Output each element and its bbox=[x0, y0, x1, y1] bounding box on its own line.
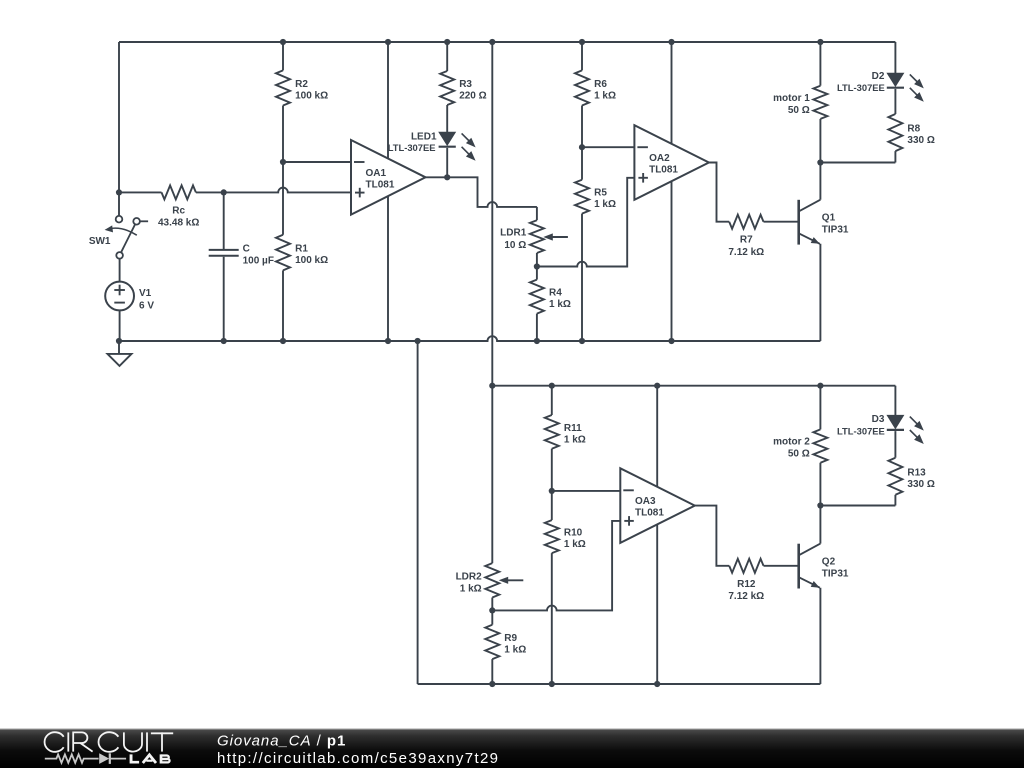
svg-text:7.12 kΩ: 7.12 kΩ bbox=[728, 247, 764, 258]
svg-text:D3: D3 bbox=[872, 414, 885, 425]
svg-text:motor 2: motor 2 bbox=[773, 437, 810, 448]
junction top rail/R2 bbox=[280, 39, 286, 45]
voltage source V1 bbox=[105, 282, 154, 312]
svg-text:OA2: OA2 bbox=[649, 153, 670, 164]
junction motor1/Q1 collector bbox=[817, 159, 823, 165]
switch SW1 bbox=[89, 216, 148, 259]
resistor R9 bbox=[485, 610, 526, 684]
svg-text:100 kΩ: 100 kΩ bbox=[295, 91, 328, 102]
junction Rc row/C bbox=[221, 189, 227, 195]
wire R7 to Q1 base bbox=[764, 221, 799, 223]
motor 2 (resistor symbol) bbox=[773, 386, 827, 506]
svg-text:http://circuitlab.com/c5e39axn: http://circuitlab.com/c5e39axny7t29 bbox=[217, 750, 499, 767]
svg-text:OA3: OA3 bbox=[635, 496, 656, 507]
wire LDR1 junction to OA2 + input bbox=[537, 178, 635, 267]
resistor Rc bbox=[158, 185, 199, 228]
junction R2/R1/OA1 - bbox=[280, 159, 286, 165]
wire LDR2 junction to OA3 + input bbox=[492, 521, 620, 611]
svg-text:motor 1: motor 1 bbox=[773, 93, 810, 104]
CircuitLab logo bbox=[45, 732, 174, 764]
svg-text:R6: R6 bbox=[594, 79, 607, 90]
junction lower rail/R11 bbox=[549, 383, 555, 389]
junction bottom rail/col417 bbox=[415, 338, 421, 344]
resistor R8 bbox=[888, 114, 934, 163]
junction lower bottom rail/R10 bbox=[549, 681, 555, 687]
svg-text:1 kΩ: 1 kΩ bbox=[564, 539, 586, 550]
junction top rail/col671 bbox=[668, 39, 674, 45]
photoresistor LDR2 bbox=[456, 386, 524, 611]
wire column behind OA2 bbox=[671, 42, 673, 341]
wire column behind OA1 bbox=[387, 42, 389, 341]
junction OA1 out/LED1 bbox=[444, 174, 450, 180]
junction bottom rail/R4 bbox=[534, 338, 540, 344]
junction bottom rail/R1 bbox=[280, 338, 286, 344]
junction bottom rail/V1 bbox=[116, 338, 122, 344]
junction lower rail/col492 bbox=[489, 383, 495, 389]
svg-text:R2: R2 bbox=[295, 79, 308, 90]
footer URL bbox=[217, 750, 499, 767]
wire motor1/R8 junction row bbox=[820, 162, 895, 164]
wire OA2 inverting input bbox=[582, 146, 634, 148]
svg-text:SW1: SW1 bbox=[89, 236, 111, 247]
svg-text:TL081: TL081 bbox=[649, 165, 678, 176]
junction R11/R10/OA3 - bbox=[549, 488, 555, 494]
footer title Giovana_CA / p1 bbox=[217, 733, 346, 750]
svg-text:10 Ω: 10 Ω bbox=[504, 240, 526, 251]
motor 1 (resistor symbol) bbox=[773, 42, 827, 163]
wire SW1 to V1 bbox=[119, 259, 121, 282]
svg-text:1 kΩ: 1 kΩ bbox=[564, 434, 586, 445]
resistor R11 bbox=[545, 386, 586, 491]
svg-text:43.48 kΩ: 43.48 kΩ bbox=[158, 218, 199, 229]
svg-text:R9: R9 bbox=[504, 633, 517, 644]
svg-text:330 Ω: 330 Ω bbox=[907, 135, 934, 146]
svg-text:OA1: OA1 bbox=[366, 168, 387, 179]
junction lower rail/motor2 bbox=[817, 383, 823, 389]
resistor R10 bbox=[545, 491, 586, 684]
svg-text:LDR1: LDR1 bbox=[500, 228, 527, 239]
svg-text:R8: R8 bbox=[907, 124, 920, 135]
svg-text:220 Ω: 220 Ω bbox=[459, 91, 486, 102]
junction bottom rail/col388 bbox=[385, 338, 391, 344]
wire lower-left column bbox=[417, 341, 419, 684]
transistor Q2 bbox=[799, 506, 849, 685]
svg-text:R1: R1 bbox=[295, 244, 308, 255]
junction lower rail/col657 bbox=[654, 383, 660, 389]
footer bar bbox=[0, 729, 1024, 768]
svg-text:7.12 kΩ: 7.12 kΩ bbox=[728, 591, 764, 602]
transistor Q1 bbox=[799, 163, 849, 342]
wire V1 to ground rail bbox=[119, 310, 121, 341]
op-amp OA2 bbox=[634, 125, 709, 200]
svg-text:1 kΩ: 1 kΩ bbox=[460, 584, 482, 595]
svg-text:R13: R13 bbox=[907, 467, 926, 478]
svg-text:V1: V1 bbox=[139, 288, 152, 299]
svg-text:TL081: TL081 bbox=[366, 179, 395, 190]
svg-text:R12: R12 bbox=[737, 579, 756, 590]
wire OA3 output to R12 bbox=[695, 506, 730, 566]
wire Rc row left bbox=[119, 191, 162, 193]
svg-text:R5: R5 bbox=[594, 188, 607, 199]
resistor R7 bbox=[728, 215, 764, 258]
svg-text:1 kΩ: 1 kΩ bbox=[504, 644, 526, 655]
wire motor2/R13 junction row bbox=[820, 505, 895, 507]
svg-text:R11: R11 bbox=[564, 423, 582, 434]
wire column behind OA3 bbox=[656, 386, 658, 684]
junction lower bottom rail/R9 bbox=[489, 681, 495, 687]
wire OA3 inverting input bbox=[552, 490, 621, 492]
junction bottom rail/R5 bbox=[579, 338, 585, 344]
svg-text:LTL-307EE: LTL-307EE bbox=[388, 142, 436, 153]
svg-text:Q1: Q1 bbox=[822, 213, 836, 224]
svg-text:1 kΩ: 1 kΩ bbox=[594, 91, 616, 102]
svg-text:330 Ω: 330 Ω bbox=[907, 479, 934, 490]
junction left column/Rc bbox=[116, 189, 122, 195]
junction LDR2/R9 junction bbox=[489, 607, 495, 613]
wire lower bottom rail bbox=[418, 683, 821, 685]
svg-text:R3: R3 bbox=[459, 79, 472, 90]
junction bottom rail/col671 bbox=[668, 338, 674, 344]
resistor R6 bbox=[575, 42, 616, 147]
junction lower bottom rail/col657 bbox=[654, 681, 660, 687]
svg-text:LDR2: LDR2 bbox=[456, 571, 483, 582]
ground bbox=[108, 341, 132, 366]
op-amp OA3 bbox=[620, 468, 695, 543]
svg-text:Giovana_CA / p1: Giovana_CA / p1 bbox=[217, 733, 346, 750]
LED LED1 bbox=[388, 132, 476, 178]
wire OA1 output bbox=[426, 177, 537, 207]
photoresistor LDR1 bbox=[500, 207, 568, 267]
svg-text:100 kΩ: 100 kΩ bbox=[295, 255, 328, 266]
svg-text:R7: R7 bbox=[740, 235, 753, 246]
resistor R2 bbox=[276, 42, 328, 162]
svg-text:R4: R4 bbox=[549, 288, 562, 299]
junction top rail/R6 bbox=[579, 39, 585, 45]
svg-text:TIP31: TIP31 bbox=[822, 225, 849, 236]
svg-text:D2: D2 bbox=[872, 71, 885, 82]
capacitor C bbox=[209, 192, 274, 341]
svg-text:LTL-307EE: LTL-307EE bbox=[837, 82, 885, 93]
wire OA2 output to R7 bbox=[709, 163, 729, 222]
wire upper bottom rail bbox=[119, 336, 820, 341]
resistor R5 bbox=[575, 147, 616, 341]
svg-text:1 kΩ: 1 kΩ bbox=[549, 299, 571, 310]
junction top rail/col492 bbox=[489, 39, 495, 45]
junction bottom rail/C bbox=[221, 338, 227, 344]
resistor R1 bbox=[276, 162, 328, 341]
wire right column (top rail to lower rail) bbox=[491, 42, 493, 386]
LED D3 bbox=[837, 386, 924, 458]
wire R12 to Q2 base bbox=[764, 565, 799, 567]
junction top rail/motor1 bbox=[817, 39, 823, 45]
wire top supply rail bbox=[119, 41, 895, 43]
svg-text:TL081: TL081 bbox=[635, 508, 664, 519]
resistor R12 bbox=[728, 559, 764, 602]
resistor R13 bbox=[888, 458, 934, 506]
junction motor2/Q2 collector bbox=[817, 502, 823, 508]
junction R6/R5/OA2 - bbox=[579, 144, 585, 150]
svg-text:C: C bbox=[243, 244, 250, 255]
resistor R4 bbox=[530, 267, 571, 342]
svg-text:TIP31: TIP31 bbox=[822, 569, 849, 580]
svg-text:LTL-307EE: LTL-307EE bbox=[837, 426, 885, 437]
svg-text:6 V: 6 V bbox=[139, 301, 154, 312]
svg-text:1 kΩ: 1 kΩ bbox=[594, 199, 616, 210]
svg-text:100 µF: 100 µF bbox=[243, 256, 274, 267]
wire lower top rail bbox=[492, 385, 895, 387]
svg-text:50 Ω: 50 Ω bbox=[788, 449, 810, 460]
svg-text:50 Ω: 50 Ω bbox=[788, 105, 810, 116]
wire Rc to OA1 + input bbox=[196, 188, 351, 193]
junction top rail/col388 bbox=[385, 39, 391, 45]
junction LDR1/R4 junction bbox=[534, 263, 540, 269]
resistor R3 bbox=[440, 42, 486, 132]
svg-text:R10: R10 bbox=[564, 528, 583, 539]
op-amp OA1 bbox=[351, 140, 426, 215]
svg-text:Rc: Rc bbox=[172, 205, 185, 216]
junction top rail/R3 bbox=[444, 39, 450, 45]
svg-text:Q2: Q2 bbox=[822, 557, 836, 568]
wire OA1 inverting input bbox=[283, 161, 351, 163]
wire left column (top rail to SW1) bbox=[118, 42, 120, 216]
LED D2 bbox=[837, 42, 924, 114]
